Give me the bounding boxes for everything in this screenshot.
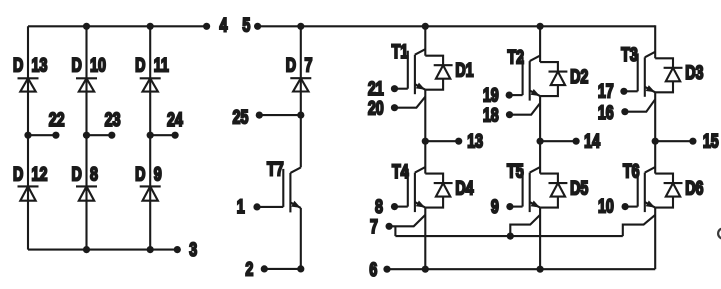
node 3: [174, 246, 181, 253]
svg-text:7: 7: [305, 54, 313, 75]
svg-text:4: 4: [219, 14, 227, 35]
diode D8: [76, 185, 97, 187]
wire leg1 upper emitter to midpoint: [424, 90, 426, 142]
wire T1 gate lead: [395, 88, 408, 90]
diode D5: [540, 174, 558, 184]
wire leg2 lower emitter to DC- rail: [539, 208, 541, 270]
node 9: [506, 203, 513, 210]
wire chopper mid vertical: [300, 115, 302, 167]
wire T5 aux emitter link: [510, 215, 540, 236]
svg-text:2: 2: [245, 258, 253, 279]
wire DC+ top rail node5 to inverter: [258, 25, 656, 27]
svg-text:D4: D4: [455, 177, 474, 198]
diode D2: [540, 62, 558, 72]
svg-text:T1: T1: [392, 41, 409, 62]
node 7: [386, 223, 393, 230]
terminal dot chopper emitter: [297, 265, 304, 272]
node 19: [506, 92, 513, 99]
junction dot top rail leg2: [83, 23, 90, 30]
wire node1 gate lead: [257, 206, 283, 208]
svg-text:5: 5: [242, 14, 250, 35]
wire T4 gate lead: [395, 206, 408, 208]
diode D11: [140, 77, 161, 79]
svg-text:6: 6: [369, 259, 377, 280]
node 23 stub: [83, 132, 90, 139]
cropped glyph fragment at right edge: [718, 228, 721, 238]
wire leg3 midpoint to T6 collector: [654, 141, 656, 173]
wire 16 aux emitter lead: [625, 99, 655, 111]
junction dot bottom rail leg3: [147, 246, 154, 253]
svg-text:9: 9: [491, 196, 499, 217]
junction dot chopper top: [297, 23, 304, 30]
junction dot DC- rail leg2: [537, 266, 544, 273]
wire node2 stub: [264, 268, 301, 270]
junction dot bus T5: [507, 233, 514, 240]
wire rectifier bottom rail (node 3 bus): [28, 249, 177, 251]
wire DC+ rail corner into leg3: [654, 25, 656, 58]
svg-text:11: 11: [154, 54, 169, 75]
svg-text:T5: T5: [507, 160, 524, 181]
svg-text:D1: D1: [455, 59, 473, 80]
svg-text:3: 3: [189, 239, 197, 260]
wire leg2 midpoint to T5 collector: [539, 141, 541, 173]
node 18 auxiliary emitter: [506, 111, 513, 118]
svg-text:D: D: [135, 163, 145, 184]
svg-text:T4: T4: [392, 161, 409, 182]
svg-text:T3: T3: [621, 44, 638, 65]
svg-text:T7: T7: [267, 158, 284, 179]
node 15 stub: [652, 138, 659, 145]
node 22 stub: [24, 132, 31, 139]
junction dot bottom rail leg2: [83, 246, 90, 253]
svg-text:22: 22: [49, 109, 65, 130]
node 21: [391, 85, 398, 92]
wire node25 stub: [259, 114, 301, 116]
svg-text:10: 10: [598, 196, 614, 217]
svg-text:17: 17: [598, 81, 614, 102]
wire rectifier leg 2 vertical: [85, 26, 87, 249]
svg-text:7: 7: [370, 216, 378, 237]
wire T2 gate lead: [509, 94, 522, 96]
svg-text:18: 18: [483, 104, 499, 125]
junction dot DC+ rail leg1: [422, 23, 429, 30]
diode D4: [425, 174, 443, 184]
diode D12: [18, 185, 39, 187]
svg-text:15: 15: [703, 131, 719, 152]
svg-text:24: 24: [167, 109, 183, 130]
svg-text:21: 21: [368, 78, 384, 99]
wire T6 gate lead: [625, 206, 638, 208]
svg-text:D: D: [286, 54, 296, 75]
diode D3: [655, 58, 673, 68]
svg-text:D: D: [13, 163, 23, 184]
node 20 auxiliary emitter: [391, 104, 398, 111]
junction dot node25: [297, 112, 304, 119]
node 14 stub: [537, 138, 544, 145]
svg-text:16: 16: [598, 102, 614, 123]
svg-text:8: 8: [375, 196, 383, 217]
svg-text:10: 10: [90, 54, 106, 75]
svg-text:D5: D5: [570, 177, 588, 198]
wire T5 gate lead: [510, 206, 523, 208]
diode D10: [76, 77, 97, 79]
svg-text:19: 19: [483, 85, 499, 106]
junction dot DC- rail leg1: [422, 266, 429, 273]
diode D6: [655, 174, 673, 184]
svg-text:D6: D6: [685, 177, 703, 198]
node 13 stub: [422, 138, 429, 145]
node 6: [383, 266, 390, 273]
svg-text:23: 23: [105, 109, 121, 130]
diode D7: [290, 77, 311, 79]
svg-text:25: 25: [233, 106, 249, 127]
node 10: [622, 203, 629, 210]
junction dot top rail leg3: [147, 23, 154, 30]
wire T6 aux emitter link: [623, 215, 655, 236]
diode D9: [140, 185, 161, 187]
wire leg3 upper emitter to midpoint: [654, 92, 656, 141]
wire chopper upper vertical: [300, 26, 302, 115]
svg-text:13: 13: [467, 131, 483, 152]
wire rectifier top rail (node 4 bus): [28, 25, 207, 27]
svg-text:20: 20: [368, 98, 384, 119]
wire aux emitter bus horizontal: [395, 235, 622, 237]
wire chopper emitter vertical: [300, 208, 302, 269]
node 4: [203, 23, 210, 30]
svg-text:13: 13: [32, 54, 48, 75]
node 24 stub: [147, 132, 154, 139]
svg-text:12: 12: [32, 163, 48, 184]
wire DC- bottom rail: [387, 268, 655, 270]
svg-text:D3: D3: [685, 62, 703, 83]
svg-text:D: D: [71, 54, 81, 75]
svg-text:8: 8: [90, 163, 98, 184]
diode D13: [18, 77, 39, 79]
junction dot DC+ rail leg2: [537, 23, 544, 30]
node 16 auxiliary emitter: [621, 108, 628, 115]
wire rectifier leg 1 vertical: [27, 26, 29, 249]
wire leg2 upper emitter to midpoint: [539, 96, 541, 141]
wire leg1 collector from DC+ rail: [424, 26, 426, 55]
node 17: [620, 88, 627, 95]
svg-text:9: 9: [154, 163, 162, 184]
svg-text:D2: D2: [570, 66, 588, 87]
wire 20 aux emitter lead: [395, 97, 426, 108]
wire leg1 midpoint to T4 collector: [424, 141, 426, 173]
svg-text:1: 1: [237, 196, 245, 217]
wire node7 to T4 aux emitter: [389, 215, 425, 226]
svg-text:14: 14: [584, 131, 600, 152]
wire leg2 collector from DC+ rail: [539, 26, 541, 62]
svg-text:D: D: [13, 54, 23, 75]
wire node7 bus drop: [394, 226, 396, 236]
wire 18 aux emitter lead: [510, 103, 541, 115]
svg-text:D: D: [135, 54, 145, 75]
wire T3 gate lead: [624, 90, 638, 92]
svg-text:D: D: [71, 163, 81, 184]
wire leg3 lower emitter to DC- rail: [654, 208, 656, 270]
diode D1: [425, 56, 443, 65]
node 8: [391, 203, 398, 210]
wire rectifier leg 3 vertical: [149, 26, 151, 249]
wire leg1 lower emitter to DC- rail: [424, 208, 426, 270]
